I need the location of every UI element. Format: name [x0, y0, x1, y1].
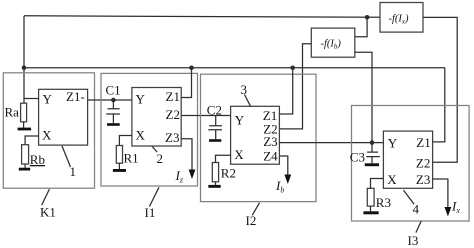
resistor Rb: [22, 145, 29, 164]
svg-text:1: 1: [70, 164, 77, 179]
wire: Z3 of block 2 down to output arrow: [181, 139, 192, 171]
op-amp block 1 box: [39, 89, 88, 145]
node C1 tap junction dot: [111, 98, 116, 103]
svg-text:Z1-: Z1-: [66, 89, 85, 104]
wire: X input of block 2 to R1: [119, 136, 131, 146]
ground under R3: [363, 211, 378, 214]
svg-text:R3: R3: [376, 195, 391, 210]
node A junction dot on main bus at x=24: [22, 66, 27, 71]
wire: R2 bottom stub: [215, 182, 217, 185]
svg-text:Z3: Z3: [165, 130, 179, 145]
I2 outer box: [201, 74, 317, 201]
pointer line to label I2: [252, 203, 259, 216]
wire: R3 bottom stub: [370, 206, 372, 211]
svg-text:X: X: [42, 127, 52, 142]
svg-text:R1: R1: [124, 151, 139, 166]
wire: Y input of block 1: [24, 98, 39, 100]
wire: bus right corner down to Z1 of block 4: [433, 68, 445, 142]
svg-text:C2: C2: [207, 102, 222, 117]
wire: -f(Ib) lower right to node E on Y wire of block 4: [355, 52, 372, 142]
node D junction dot on top bus feeding -f(Ib): [365, 15, 370, 20]
wire: X input of block 1 to Rb: [25, 136, 38, 145]
node B junction dot bus/Z1 of block 2 riser: [189, 66, 194, 71]
pointer line to label I1: [149, 187, 159, 206]
wire: Rb bottom stub: [24, 164, 26, 168]
svg-text:I2: I2: [246, 213, 257, 228]
wire: Z1 of block 2 up to bus: [181, 68, 191, 98]
svg-text:X: X: [234, 147, 244, 162]
wire: Ra bottom stub: [23, 122, 25, 128]
svg-text:X: X: [136, 127, 146, 142]
I1 outer box: [101, 73, 198, 186]
wire: top feedback bus from node A to -f(Ix) input: [24, 16, 380, 17]
pointer line to label 4: [404, 190, 415, 204]
pointer line to label 2: [152, 146, 157, 152]
svg-text:-f(Ix): -f(Ix): [389, 13, 410, 25]
wire: R1 bottom stub: [118, 163, 120, 169]
capacitor C2: [208, 116, 222, 140]
wire: Z4 of block 3 down to output arrow: [279, 156, 287, 176]
svg-text:Y: Y: [235, 112, 245, 127]
wire: Z1 of block 3 up to bus: [279, 68, 292, 114]
ground under C1: [107, 123, 120, 126]
ground under C2: [209, 139, 221, 142]
resistor Ra: [21, 103, 27, 122]
arrow Iz head: [189, 170, 196, 180]
capacitor C1: [106, 100, 120, 123]
capacitor C3: [366, 143, 380, 164]
svg-text:C3: C3: [350, 150, 365, 165]
I3 outer box: [352, 106, 470, 222]
svg-text:4: 4: [413, 201, 420, 216]
svg-text:Z3: Z3: [263, 134, 277, 149]
wire: -f(Ix) output right side down to Z2 of block 4: [423, 17, 457, 162]
arrow Is head: [445, 207, 452, 217]
svg-text:R2: R2: [221, 165, 236, 180]
svg-text:Z2: Z2: [166, 107, 180, 122]
svg-text:I1: I1: [145, 205, 156, 220]
svg-text:-f(Ib): -f(Ib): [321, 39, 342, 51]
pointer line to label 3: [245, 95, 251, 107]
wire: Z3 of block 4 down to output arrow: [433, 179, 448, 209]
wire: from node D down into right edge of -f(Ib): [355, 17, 367, 37]
svg-text:Ix: Ix: [451, 199, 460, 216]
pointer line to label K1: [42, 189, 50, 205]
pointer line to label 1: [62, 146, 71, 167]
block -f(Ix) U5 box: [380, 3, 423, 33]
svg-text:X: X: [387, 172, 397, 187]
svg-text:Rb: Rb: [30, 152, 45, 167]
svg-text:I3: I3: [408, 233, 419, 248]
wire: left vertical from top bus down into K1 (Y input / Ra): [23, 16, 25, 103]
svg-text:Z3: Z3: [416, 172, 430, 187]
ground under R2: [208, 185, 220, 188]
op-amp block 2 box: [132, 88, 181, 147]
svg-text:3: 3: [241, 82, 248, 97]
svg-text:Y: Y: [43, 92, 53, 107]
wire: X input of block 4 to R3: [371, 179, 384, 189]
wire: main horizontal bus y=67.8 across figure: [24, 67, 445, 69]
node C junction dot bus/Z1 of block 3 riser: [290, 66, 295, 71]
svg-text:Iz: Iz: [175, 168, 184, 185]
K1 outer box: [3, 73, 94, 188]
resistor R3: [367, 188, 374, 206]
svg-text:K1: K1: [40, 205, 56, 220]
op-amp block 4 box: [383, 131, 432, 188]
svg-text:Z1: Z1: [166, 89, 180, 104]
resistor R2: [212, 163, 218, 182]
wire: Z3 of block 3 to Y of block 4: [279, 142, 383, 144]
wire: Z2 of block 2 to Y of block 3: [181, 115, 230, 117]
svg-text:Ra: Ra: [5, 105, 20, 120]
node E junction dot (C3 tap): [370, 140, 375, 145]
svg-text:Ib: Ib: [275, 178, 284, 195]
svg-text:C1: C1: [106, 83, 121, 98]
svg-text:Z1: Z1: [416, 135, 430, 150]
ground under Ra: [18, 128, 32, 131]
svg-text:Z4: Z4: [263, 148, 278, 163]
block -f(Ib) U6 box: [311, 28, 355, 57]
svg-text:Y: Y: [136, 92, 146, 107]
svg-text:2: 2: [157, 151, 164, 166]
ground under Rb: [19, 168, 30, 171]
ground under R1: [113, 169, 126, 172]
pointer line to label I3: [416, 221, 421, 233]
wire: X input of block 3 to R2: [216, 155, 231, 162]
op-amp block 3 box: [231, 106, 280, 164]
wire: -f(Ib) left side down to Z2 of block 3: [279, 44, 311, 129]
wire: Z1- output of block 1 to Y of block 2: [88, 99, 132, 101]
svg-text:Y: Y: [388, 135, 398, 150]
resistor R1: [116, 146, 122, 164]
ground under C3: [365, 163, 379, 166]
arrow Ib head: [284, 175, 291, 185]
svg-text:Z2: Z2: [416, 155, 430, 170]
